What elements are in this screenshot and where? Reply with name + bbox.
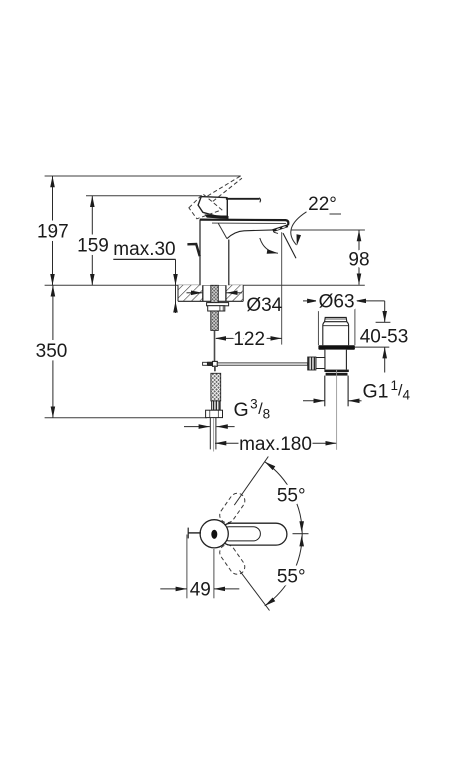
drain centerline (336, 370, 338, 450)
dimension 49 (160, 535, 239, 601)
faucet body column (200, 219, 229, 285)
svg-text:49: 49 (190, 580, 211, 601)
dimension 197 (37, 176, 69, 285)
svg-text:22°: 22° (308, 194, 337, 215)
dimension 98 (spout height) (291, 230, 369, 285)
wire handle-top extension line (159 ref) (86, 195, 201, 197)
svg-text:G11/4: G11/4 (363, 378, 411, 403)
wire deck reference line (45, 284, 365, 286)
dimension max.180 (215, 434, 337, 455)
svg-text:40-53: 40-53 (360, 327, 409, 348)
dimension 350 (36, 285, 68, 418)
faucet spout (200, 220, 288, 239)
angle 22 annotation (260, 194, 341, 258)
mounting shank through deck (211, 285, 219, 330)
swing arc upper 55 (263, 460, 304, 534)
mounting nut (208, 306, 225, 311)
swing axis line lower (240, 571, 270, 611)
svg-text:Ø63: Ø63 (319, 292, 355, 313)
hose end ribbed collar (212, 401, 221, 410)
pop-up drain assembly (308, 317, 355, 449)
swing arc lower 55 (263, 534, 304, 608)
svg-text:G3/8: G3/8 (234, 396, 271, 421)
svg-text:55°: 55° (277, 485, 306, 506)
horizontal linkage rod to drain (217, 363, 307, 365)
handle swing dashed lever up (217, 490, 248, 525)
drain side boss (316, 358, 325, 369)
dimension 40-53 (355, 301, 408, 373)
supply pipe (210, 418, 216, 452)
dimension O34 (body diameter) (187, 293, 283, 316)
pivot dot (211, 530, 217, 539)
drain upper bell (323, 322, 349, 346)
dimension G1 1/4 (303, 378, 410, 403)
handle pivot circle (200, 520, 228, 548)
swing axis line upper (234, 457, 268, 506)
drain bottom bands (324, 370, 348, 372)
pop-up rod knob (behind body) (187, 244, 199, 256)
svg-text:max.180: max.180 (239, 434, 312, 455)
flexible braided hose (211, 373, 221, 401)
dimension max.30 (deck thickness) (113, 239, 175, 313)
svg-text:122: 122 (233, 329, 265, 350)
dimension O63 (drain flange) (303, 292, 385, 346)
deck / countertop cross-section (178, 285, 243, 301)
svg-text:197: 197 (37, 221, 69, 242)
handle swing dashed lever down (217, 542, 248, 577)
svg-text:Ø34: Ø34 (246, 295, 282, 316)
dimension 159 (77, 196, 109, 286)
dimension 122 (spout projection) (215, 232, 282, 350)
svg-text:350: 350 (36, 341, 68, 362)
handle (side view, solid) (198, 197, 260, 219)
svg-text:55°: 55° (277, 566, 306, 587)
linkage junction block (203, 361, 218, 370)
wire lower reference line (350 bottom) (45, 417, 207, 419)
wire top extension line (overall height ref) (45, 175, 241, 177)
aerator (spout outlet) (272, 224, 288, 233)
drain knob (ribbed) (308, 357, 316, 370)
svg-text:98: 98 (348, 250, 369, 271)
drain flange (O63) (318, 345, 355, 350)
washer under deck (207, 303, 229, 306)
lever inner contour (222, 527, 260, 541)
drain stopper cap (325, 317, 347, 321)
pipe diameter arrows (184, 426, 235, 428)
pop-up pull rod (214, 330, 216, 361)
pop-up rod (plan) (188, 532, 201, 534)
drain body (325, 350, 347, 370)
handle raised position (dashed) (189, 176, 242, 219)
svg-text:159: 159 (77, 236, 109, 257)
lever (plan view) (220, 523, 287, 545)
G3/8 hose nut (206, 410, 223, 417)
drain tailpipe G1 1/4 (324, 376, 326, 407)
arc mid tick (293, 533, 309, 535)
svg-text:max.30: max.30 (113, 239, 175, 260)
